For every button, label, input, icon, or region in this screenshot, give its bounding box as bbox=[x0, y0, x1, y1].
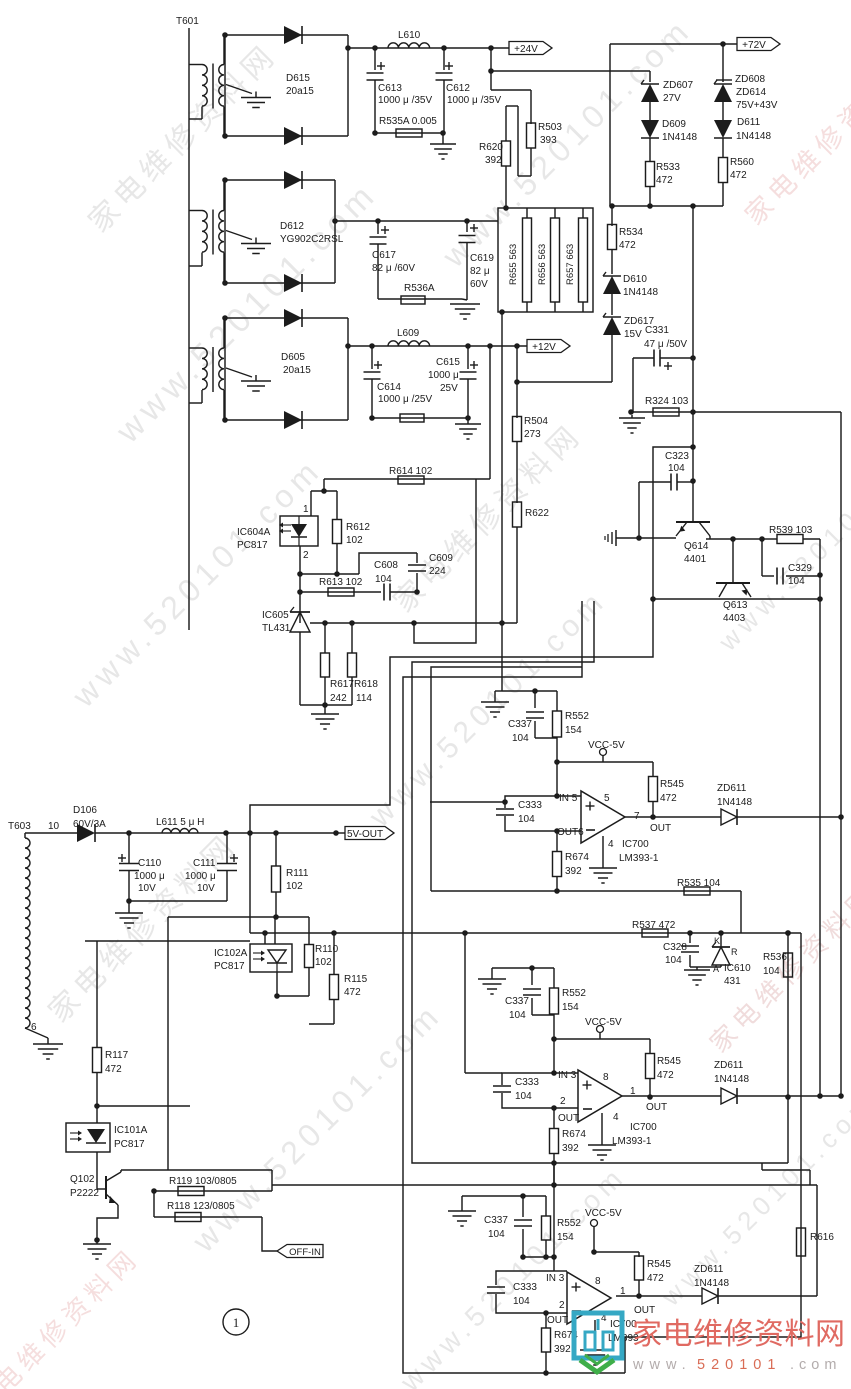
svg-text:154: 154 bbox=[565, 725, 582, 736]
svg-text:VCC-5V: VCC-5V bbox=[585, 1208, 622, 1219]
svg-text:R503: R503 bbox=[538, 122, 562, 133]
svg-text:R533: R533 bbox=[656, 162, 680, 173]
svg-text:C613: C613 bbox=[378, 83, 402, 94]
svg-text:273: 273 bbox=[524, 429, 541, 440]
svg-text:IN 5: IN 5 bbox=[559, 793, 578, 804]
svg-text:1N4148: 1N4148 bbox=[623, 287, 658, 298]
svg-text:R536: R536 bbox=[763, 952, 787, 963]
svg-text:R674: R674 bbox=[562, 1129, 586, 1140]
svg-text:C617: C617 bbox=[372, 250, 396, 261]
svg-text:R552: R552 bbox=[565, 711, 589, 722]
svg-text:82 μ: 82 μ bbox=[470, 266, 490, 277]
svg-text:IN 3: IN 3 bbox=[546, 1273, 565, 1284]
svg-text:392: 392 bbox=[565, 866, 582, 877]
svg-text:R119 103/0805: R119 103/0805 bbox=[169, 1176, 237, 1187]
svg-text:R622: R622 bbox=[525, 508, 549, 519]
svg-text:5: 5 bbox=[604, 793, 610, 804]
svg-text:VCC-5V: VCC-5V bbox=[588, 740, 625, 751]
svg-text:1: 1 bbox=[303, 504, 309, 515]
svg-text:4: 4 bbox=[613, 1112, 619, 1123]
svg-text:LM393-1: LM393-1 bbox=[612, 1136, 652, 1147]
svg-text:D615: D615 bbox=[286, 73, 310, 84]
svg-text:472: 472 bbox=[730, 170, 747, 181]
svg-text:1N4148: 1N4148 bbox=[714, 1074, 749, 1085]
svg-text:D610: D610 bbox=[623, 274, 647, 285]
svg-text:104: 104 bbox=[668, 463, 685, 474]
svg-text:82 μ /60V: 82 μ /60V bbox=[372, 263, 415, 274]
svg-text:1000 μ /25V: 1000 μ /25V bbox=[378, 394, 432, 405]
svg-text:C337: C337 bbox=[508, 719, 532, 730]
svg-text:C337: C337 bbox=[484, 1215, 508, 1226]
svg-text:R552: R552 bbox=[557, 1218, 581, 1229]
svg-text:1N4148: 1N4148 bbox=[694, 1278, 729, 1289]
svg-text:392: 392 bbox=[485, 155, 502, 166]
svg-text:OFF-IN: OFF-IN bbox=[289, 1247, 321, 1258]
svg-text:431: 431 bbox=[724, 976, 741, 987]
svg-text:R616: R616 bbox=[810, 1232, 834, 1243]
svg-text:OUT: OUT bbox=[650, 823, 671, 834]
svg-text:104: 104 bbox=[488, 1229, 505, 1240]
svg-text:OUT: OUT bbox=[634, 1305, 655, 1316]
svg-text:4401: 4401 bbox=[684, 554, 707, 565]
svg-text:C331: C331 bbox=[645, 325, 669, 336]
svg-text:104: 104 bbox=[515, 1091, 532, 1102]
svg-text:20a15: 20a15 bbox=[283, 365, 311, 376]
svg-text:ZD611: ZD611 bbox=[714, 1060, 744, 1071]
svg-text:R118 123/0805: R118 123/0805 bbox=[167, 1201, 235, 1212]
svg-text:T601: T601 bbox=[176, 16, 199, 27]
svg-text:C615: C615 bbox=[436, 357, 460, 368]
svg-text:ZD611: ZD611 bbox=[694, 1264, 724, 1275]
svg-text:224: 224 bbox=[429, 566, 446, 577]
svg-text:472: 472 bbox=[105, 1064, 122, 1075]
svg-text:C329: C329 bbox=[788, 563, 812, 574]
svg-text:104: 104 bbox=[763, 966, 780, 977]
svg-text:472: 472 bbox=[647, 1273, 664, 1284]
svg-text:472: 472 bbox=[344, 987, 361, 998]
svg-text:R535A 0.005: R535A 0.005 bbox=[379, 116, 437, 127]
svg-text:15V: 15V bbox=[624, 329, 642, 340]
svg-text:OUT: OUT bbox=[646, 1102, 667, 1113]
svg-text:IC604A: IC604A bbox=[237, 527, 271, 538]
svg-text:10V: 10V bbox=[197, 883, 215, 894]
svg-text:家电维修资料网: 家电维修资料网 bbox=[632, 1318, 846, 1351]
svg-text:L609: L609 bbox=[397, 328, 420, 339]
svg-text:Q613: Q613 bbox=[723, 600, 748, 611]
svg-text:47 μ /50V: 47 μ /50V bbox=[644, 339, 687, 350]
svg-text:OUT: OUT bbox=[547, 1315, 568, 1326]
svg-text:C337: C337 bbox=[505, 996, 529, 1007]
svg-text:C333: C333 bbox=[513, 1282, 537, 1293]
svg-text:104: 104 bbox=[512, 733, 529, 744]
svg-text:8: 8 bbox=[595, 1276, 601, 1287]
svg-text:2: 2 bbox=[303, 550, 309, 561]
svg-text:25V: 25V bbox=[440, 383, 458, 394]
svg-text:1N4148: 1N4148 bbox=[736, 131, 771, 142]
svg-text:1000 μ /35V: 1000 μ /35V bbox=[378, 95, 432, 106]
svg-text:ZD614: ZD614 bbox=[736, 87, 766, 98]
svg-text:114: 114 bbox=[356, 693, 372, 704]
svg-text:102: 102 bbox=[346, 535, 363, 546]
svg-text:C333: C333 bbox=[515, 1077, 539, 1088]
svg-text:R657 663: R657 663 bbox=[565, 244, 576, 285]
svg-text:ZD611: ZD611 bbox=[717, 783, 747, 794]
svg-text:2: 2 bbox=[560, 1096, 566, 1107]
svg-text:C111: C111 bbox=[193, 858, 216, 869]
svg-text:C110: C110 bbox=[138, 858, 162, 869]
svg-text:2: 2 bbox=[559, 1300, 565, 1311]
svg-text:C614: C614 bbox=[377, 382, 401, 393]
svg-text:L610: L610 bbox=[398, 30, 421, 41]
svg-text:Q102: Q102 bbox=[70, 1174, 95, 1185]
svg-text:392: 392 bbox=[554, 1344, 571, 1355]
svg-text:IC700: IC700 bbox=[630, 1122, 657, 1133]
svg-text:392: 392 bbox=[562, 1143, 579, 1154]
svg-text:R552: R552 bbox=[562, 988, 586, 999]
svg-text:R: R bbox=[731, 947, 738, 957]
svg-text:A: A bbox=[713, 964, 719, 974]
svg-text:R674: R674 bbox=[565, 852, 589, 863]
svg-text:104: 104 bbox=[788, 576, 805, 587]
svg-text:4: 4 bbox=[608, 839, 614, 850]
svg-text:.com: .com bbox=[790, 1357, 841, 1373]
svg-text:R534: R534 bbox=[619, 227, 643, 238]
svg-text:104: 104 bbox=[513, 1296, 530, 1307]
svg-text:27V: 27V bbox=[663, 93, 681, 104]
svg-text:R617: R617 bbox=[330, 679, 354, 690]
svg-text:60V: 60V bbox=[470, 279, 488, 290]
svg-text:IC101A: IC101A bbox=[114, 1125, 148, 1136]
svg-text:www.: www. bbox=[632, 1357, 692, 1373]
svg-text:1000 μ: 1000 μ bbox=[134, 871, 165, 882]
svg-text:+12V: +12V bbox=[532, 342, 556, 353]
svg-text:C323: C323 bbox=[665, 451, 689, 462]
svg-text:1000 μ: 1000 μ bbox=[428, 370, 459, 381]
svg-text:C609: C609 bbox=[429, 553, 453, 564]
svg-text:4403: 4403 bbox=[723, 613, 746, 624]
svg-text:YG902C2RSL: YG902C2RSL bbox=[280, 234, 344, 245]
svg-text:PC817: PC817 bbox=[237, 540, 268, 551]
svg-text:R612: R612 bbox=[346, 522, 370, 533]
svg-text:472: 472 bbox=[619, 240, 636, 251]
svg-text:1: 1 bbox=[233, 1315, 240, 1330]
svg-text:520101: 520101 bbox=[697, 1357, 781, 1373]
svg-text:10V: 10V bbox=[138, 883, 156, 894]
svg-text:R620: R620 bbox=[479, 142, 503, 153]
svg-text:102: 102 bbox=[315, 957, 332, 968]
svg-text:R618: R618 bbox=[354, 679, 378, 690]
svg-text:C608: C608 bbox=[374, 560, 398, 571]
svg-text:R545: R545 bbox=[657, 1056, 681, 1067]
svg-text:IC610: IC610 bbox=[724, 963, 751, 974]
svg-text:R536A: R536A bbox=[404, 283, 435, 294]
svg-text:IN 3: IN 3 bbox=[558, 1070, 577, 1081]
svg-text:393: 393 bbox=[540, 135, 557, 146]
svg-text:D611: D611 bbox=[737, 117, 761, 128]
svg-text:104: 104 bbox=[665, 955, 682, 966]
svg-text:102: 102 bbox=[286, 881, 303, 892]
svg-text:472: 472 bbox=[656, 175, 673, 186]
svg-text:20a15: 20a15 bbox=[286, 86, 314, 97]
svg-text:1N4148: 1N4148 bbox=[662, 132, 697, 143]
svg-text:D605: D605 bbox=[281, 352, 305, 363]
svg-text:104: 104 bbox=[375, 574, 392, 585]
svg-text:+24V: +24V bbox=[514, 44, 538, 55]
svg-text:R324 103: R324 103 bbox=[645, 396, 689, 407]
svg-text:LM393-1: LM393-1 bbox=[619, 853, 659, 864]
svg-text:R655 563: R655 563 bbox=[508, 244, 519, 285]
svg-text:P2222: P2222 bbox=[70, 1188, 99, 1199]
svg-text:R111: R111 bbox=[286, 868, 309, 879]
svg-text:R656 563: R656 563 bbox=[537, 244, 548, 285]
svg-text:C612: C612 bbox=[446, 83, 470, 94]
svg-text:PC817: PC817 bbox=[114, 1139, 145, 1150]
svg-text:IC605: IC605 bbox=[262, 610, 289, 621]
svg-text:R110: R110 bbox=[315, 944, 339, 955]
svg-text:R613 102: R613 102 bbox=[319, 577, 363, 588]
svg-text:1000 μ: 1000 μ bbox=[185, 871, 216, 882]
svg-text:R560: R560 bbox=[730, 157, 754, 168]
svg-text:IC700: IC700 bbox=[622, 839, 649, 850]
svg-text:472: 472 bbox=[660, 793, 677, 804]
svg-text:OUT: OUT bbox=[558, 1113, 579, 1124]
svg-text:R115: R115 bbox=[344, 974, 368, 985]
svg-text:D612: D612 bbox=[280, 221, 304, 232]
svg-text:104: 104 bbox=[518, 814, 535, 825]
svg-text:R545: R545 bbox=[660, 779, 684, 790]
svg-text:T603: T603 bbox=[8, 821, 31, 832]
svg-text:1N4148: 1N4148 bbox=[717, 797, 752, 808]
svg-text:472: 472 bbox=[657, 1070, 674, 1081]
svg-text:PC817: PC817 bbox=[214, 961, 245, 972]
svg-text:D106: D106 bbox=[73, 805, 97, 816]
svg-text:154: 154 bbox=[557, 1232, 574, 1243]
svg-text:242: 242 bbox=[330, 693, 347, 704]
svg-text:C619: C619 bbox=[470, 253, 494, 264]
svg-text:L611 5 μ H: L611 5 μ H bbox=[156, 817, 204, 828]
svg-text:5V-OUT: 5V-OUT bbox=[347, 829, 383, 840]
svg-text:R545: R545 bbox=[647, 1259, 671, 1270]
svg-text:Q614: Q614 bbox=[684, 541, 709, 552]
svg-text:1000 μ /35V: 1000 μ /35V bbox=[447, 95, 501, 106]
svg-text:10: 10 bbox=[48, 821, 60, 832]
svg-text:VCC-5V: VCC-5V bbox=[585, 1017, 622, 1028]
svg-text:+72V: +72V bbox=[742, 40, 766, 51]
svg-text:8: 8 bbox=[603, 1072, 609, 1083]
svg-text:154: 154 bbox=[562, 1002, 579, 1013]
svg-text:IC102A: IC102A bbox=[214, 948, 248, 959]
svg-text:ZD608: ZD608 bbox=[735, 74, 765, 85]
svg-text:104: 104 bbox=[509, 1010, 526, 1021]
svg-text:R504: R504 bbox=[524, 416, 548, 427]
svg-text:D609: D609 bbox=[662, 119, 686, 130]
svg-text:R117: R117 bbox=[105, 1050, 129, 1061]
svg-text:OUT6: OUT6 bbox=[557, 827, 584, 838]
svg-text:TL431: TL431 bbox=[262, 623, 291, 634]
svg-text:C333: C333 bbox=[518, 800, 542, 811]
svg-text:75V+43V: 75V+43V bbox=[736, 100, 778, 111]
svg-text:ZD607: ZD607 bbox=[663, 80, 693, 91]
svg-text:K: K bbox=[714, 936, 720, 946]
